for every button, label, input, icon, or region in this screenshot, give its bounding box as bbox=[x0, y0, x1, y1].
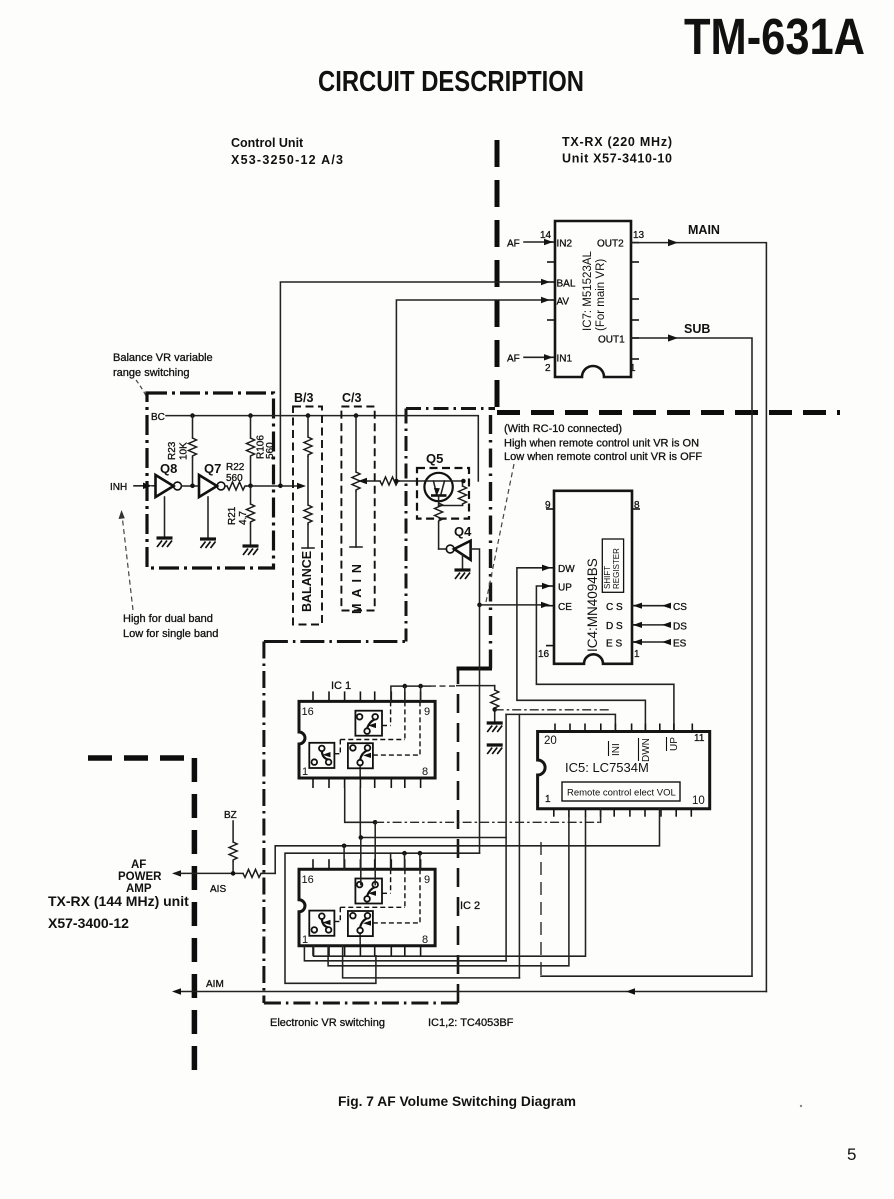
control unit boundary dash-dot: bottom y=1003 bbox=[264, 1002, 458, 1005]
svg-text:R21: R21 bbox=[227, 506, 238, 525]
svg-text:CE: CE bbox=[558, 602, 572, 613]
svg-text:TX-RX (220 MHz): TX-RX (220 MHz) bbox=[562, 135, 672, 149]
svg-text:IN2: IN2 bbox=[557, 239, 573, 250]
svg-text:AV: AV bbox=[557, 297, 570, 308]
dash-dot box: balance VR variable range switching bbox=[147, 393, 274, 568]
svg-text:SHIFT: SHIFT bbox=[603, 566, 612, 589]
IC7 left pin ticks bbox=[547, 242, 555, 357]
svg-text:DW: DW bbox=[558, 564, 575, 575]
svg-text:10K: 10K bbox=[179, 442, 190, 460]
TX-RX 144 boundary: thick dashed horizontal y=758 bbox=[88, 755, 194, 761]
svg-text:MAIN: MAIN bbox=[350, 558, 364, 614]
wire OUT1 to SUB going right and down bbox=[631, 322, 752, 976]
TX-RX 144 boundary: thick dashed vertical x=194 bbox=[192, 758, 198, 1076]
bottom bus L1 bbox=[314, 817, 586, 957]
svg-text:4.7: 4.7 bbox=[238, 511, 249, 525]
svg-text:C/3: C/3 bbox=[342, 391, 362, 405]
svg-text:High for dual band: High for dual band bbox=[123, 613, 213, 625]
op-amp/electronic VR IC7 box bbox=[555, 221, 631, 377]
svg-text:IC4:MN4094BS: IC4:MN4094BS bbox=[585, 558, 600, 652]
IC4 MN4094BS shift register box bbox=[538, 491, 640, 664]
svg-text:5: 5 bbox=[847, 1145, 856, 1164]
ES input arrow and label bbox=[632, 639, 687, 650]
svg-text:AIM: AIM bbox=[206, 979, 224, 990]
wire C/3 wiper through resistor to Q5 base bbox=[367, 480, 380, 482]
svg-text:IC7: M51523AL: IC7: M51523AL bbox=[582, 250, 594, 331]
svg-text:13: 13 bbox=[633, 230, 645, 241]
svg-text:UP: UP bbox=[558, 583, 572, 594]
svg-text:1: 1 bbox=[630, 363, 636, 374]
svg-text:SUB: SUB bbox=[684, 322, 710, 336]
CS input arrow and label bbox=[632, 602, 687, 613]
svg-text:AF: AF bbox=[131, 859, 146, 871]
svg-text:560: 560 bbox=[226, 473, 243, 484]
svg-text:16: 16 bbox=[538, 649, 550, 660]
potentiometer in C/3 bbox=[350, 416, 362, 547]
leader from note to CE node bbox=[486, 464, 514, 602]
wire Q8 out to Q7 in bbox=[181, 485, 199, 487]
INI riser bbox=[506, 714, 615, 731]
svg-text:1: 1 bbox=[634, 649, 640, 660]
svg-text:Q4: Q4 bbox=[454, 524, 472, 539]
svg-text:BC: BC bbox=[151, 412, 165, 423]
svg-text:IC1,2: TC4053BF: IC1,2: TC4053BF bbox=[428, 1017, 514, 1029]
control unit boundary long-dash vertical x=458 bbox=[457, 669, 460, 1004]
svg-text:OUT1: OUT1 bbox=[598, 335, 625, 346]
wire BAL from balance network bbox=[280, 279, 550, 486]
svg-text:B/3: B/3 bbox=[294, 391, 314, 405]
resistor below Q5 emitter bbox=[435, 503, 443, 549]
svg-text:BZ: BZ bbox=[224, 810, 237, 821]
resistor R21 4.7 bbox=[227, 486, 255, 546]
input INH with arrow bbox=[110, 482, 156, 493]
wire CE from Q4 line bbox=[480, 602, 551, 608]
svg-text:CIRCUIT DESCRIPTION: CIRCUIT DESCRIPTION bbox=[318, 66, 584, 98]
wire AF to IN1 with arrow bbox=[507, 354, 553, 365]
svg-text:D S: D S bbox=[606, 621, 623, 632]
svg-text:DWN: DWN bbox=[641, 738, 652, 762]
svg-text:(For main VR): (For main VR) bbox=[595, 259, 607, 331]
unit boundary: thick dashed vertical between control unit and TX-RX 220 bbox=[495, 140, 500, 413]
inverter Q7 bbox=[199, 461, 225, 497]
svg-text:C S: C S bbox=[606, 602, 623, 613]
svg-text:ES: ES bbox=[673, 639, 687, 650]
resistor R23 10K bbox=[167, 416, 197, 486]
svg-text:11: 11 bbox=[694, 733, 705, 744]
svg-text:1: 1 bbox=[545, 794, 551, 805]
svg-text:Q5: Q5 bbox=[426, 451, 443, 466]
wire OUT2 to MAIN going right and down bbox=[631, 223, 766, 992]
leader to box bbox=[136, 380, 147, 398]
svg-text:Electronic VR switching: Electronic VR switching bbox=[270, 1017, 385, 1029]
svg-text:TM-631A: TM-631A bbox=[684, 8, 865, 65]
junction dots on BC rail bbox=[190, 413, 195, 418]
wire DW route bbox=[517, 565, 646, 732]
svg-text:DS: DS bbox=[673, 622, 687, 633]
wire BC rail to Q5 collector bbox=[166, 416, 478, 481]
wire R22 to BAL riser and B/3 wiper bbox=[247, 485, 302, 487]
wire Q4 output down to CE and control bus bbox=[471, 549, 480, 853]
inverter Q8 bbox=[156, 461, 182, 497]
note with RC-10 connected bbox=[504, 423, 702, 463]
ground below Q8 bbox=[164, 497, 166, 538]
wire AIS from arrow through resistor to IC5 bbox=[176, 872, 243, 874]
DS input arrow and label bbox=[632, 622, 687, 633]
svg-text:X53-3250-12 A/3: X53-3250-12 A/3 bbox=[231, 153, 343, 167]
wire UP route bbox=[536, 583, 674, 732]
svg-text:MAIN: MAIN bbox=[688, 223, 720, 237]
control unit boundary dash-dot: horizontal y=641.5 bbox=[264, 640, 406, 643]
svg-text:IN1: IN1 bbox=[557, 354, 573, 365]
svg-text:Control Unit: Control Unit bbox=[231, 136, 304, 150]
svg-text:R23: R23 bbox=[167, 441, 178, 460]
svg-text:IC 1: IC 1 bbox=[331, 680, 351, 692]
IC5 bottom pin ticks bbox=[554, 809, 692, 817]
IC5 LC7534M box bbox=[538, 732, 710, 809]
svg-text:14: 14 bbox=[540, 230, 552, 241]
ground below Q7 bbox=[207, 497, 209, 539]
svg-text:Low for single band: Low for single band bbox=[123, 628, 218, 640]
svg-text:INI: INI bbox=[611, 743, 622, 756]
svg-text:High when remote control unit: High when remote control unit VR is ON bbox=[504, 438, 699, 450]
unit boundary: thick dashed horizontal below IC7 bbox=[497, 410, 840, 415]
IC4 pin labels bbox=[558, 564, 623, 650]
resistor R22 560 horizontal bbox=[225, 462, 247, 490]
bottom bus L2 bbox=[328, 817, 569, 966]
IC4 pin ticks bbox=[546, 509, 640, 646]
control unit boundary dash-dot: vertical x=406 bbox=[405, 409, 408, 642]
IC5 top pin ticks bbox=[555, 724, 692, 732]
svg-text:Balance VR variable: Balance VR variable bbox=[113, 352, 213, 364]
svg-text:AF: AF bbox=[507, 354, 520, 365]
wire boundary to pulldown resistor bbox=[457, 685, 495, 687]
control unit boundary dash-dot: top segment right of C/3 bbox=[406, 407, 495, 410]
svg-text:R22: R22 bbox=[226, 462, 245, 473]
transistor Q5 with dashed box bbox=[417, 451, 469, 519]
inverter Q4 pointing left bbox=[439, 524, 473, 560]
net IC1 pin to IC5 pin (dash-dot run) bbox=[345, 788, 375, 822]
svg-text:BALANCE: BALANCE bbox=[300, 551, 314, 612]
SUB bottom run bbox=[541, 975, 752, 977]
svg-text:Q8: Q8 bbox=[160, 461, 177, 476]
svg-text:OUT2: OUT2 bbox=[597, 239, 624, 250]
svg-text:IC 2: IC 2 bbox=[460, 900, 480, 912]
svg-text:X57-3400-12: X57-3400-12 bbox=[48, 915, 129, 931]
wiper arrow into B/3 pot bbox=[297, 483, 306, 489]
net IC1 pin around to IC2 bottom bbox=[360, 788, 506, 838]
control unit boundary dash-dot: vertical x=263.9 bbox=[262, 642, 265, 1004]
net INI loop to IC2 bbox=[518, 714, 520, 978]
svg-text:Q7: Q7 bbox=[204, 461, 221, 476]
wiper arrow into C/3 pot from right bbox=[358, 478, 367, 484]
wire AF to IN2 with arrow bbox=[507, 239, 553, 250]
dashed box B/3 bbox=[293, 391, 322, 625]
svg-text:IC5: LC7534M: IC5: LC7534M bbox=[565, 760, 649, 775]
dashed box C/3 bbox=[341, 391, 374, 614]
svg-text:UP: UP bbox=[669, 737, 680, 751]
svg-text:(With RC-10 connected): (With RC-10 connected) bbox=[504, 423, 622, 435]
ground below Q4 bbox=[462, 555, 464, 570]
resistor to ground near IC1 (pull-down) bbox=[487, 686, 503, 754]
svg-text:REGISTER: REGISTER bbox=[612, 548, 621, 589]
svg-text:range switching: range switching bbox=[113, 367, 189, 379]
resistor R106 560 bbox=[247, 416, 276, 486]
potentiometer in B/3 bbox=[302, 416, 314, 548]
control unit boundary dash-dot vertical x=490.5 bbox=[489, 413, 492, 669]
svg-text:CS: CS bbox=[673, 602, 687, 613]
svg-text:560: 560 bbox=[265, 442, 276, 459]
svg-text:E S: E S bbox=[606, 639, 622, 650]
svg-text:POWER: POWER bbox=[118, 871, 162, 883]
svg-text:INH: INH bbox=[110, 482, 127, 493]
Q4 control bus to IC2 and around bbox=[285, 853, 480, 983]
ground below R21 bbox=[243, 546, 259, 555]
svg-text:Remote control elect VOL: Remote control elect VOL bbox=[567, 788, 676, 799]
IC7 right pin ticks bbox=[631, 243, 639, 359]
svg-text:Fig. 7 AF Volume Switching Di: Fig. 7 AF Volume Switching Diagram bbox=[338, 1094, 576, 1109]
svg-text:10: 10 bbox=[692, 795, 705, 807]
svg-text:20: 20 bbox=[544, 735, 557, 747]
svg-text:2: 2 bbox=[545, 363, 551, 374]
svg-text:AIS: AIS bbox=[210, 884, 226, 895]
control feed bus above IC1 bbox=[391, 686, 430, 701]
net riser into IC2 switch bbox=[374, 822, 376, 884]
dash-dot wire from pulldown node to IC5 INI riser bbox=[495, 709, 609, 711]
IC7 pin labels bbox=[540, 230, 645, 374]
svg-text:Low when remote control unit V: Low when remote control unit VR is OFF bbox=[504, 451, 702, 463]
wire AV from main VR network bbox=[396, 297, 550, 481]
svg-text:AF: AF bbox=[507, 239, 520, 250]
leader with arrow to INH bbox=[119, 510, 134, 610]
svg-text:Unit X57-3410-10: Unit X57-3410-10 bbox=[562, 152, 672, 166]
svg-text:TX-RX (144 MHz) unit: TX-RX (144 MHz) unit bbox=[48, 893, 189, 909]
svg-text:BAL: BAL bbox=[557, 279, 576, 290]
control unit boundary corner y=668.5 bbox=[457, 667, 493, 671]
